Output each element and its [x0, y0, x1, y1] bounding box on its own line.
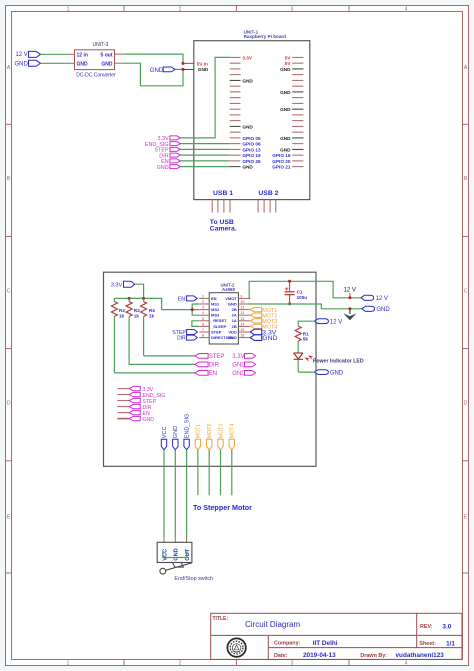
netflag END_SIG (pi) [145, 142, 180, 148]
net label 12 V [344, 288, 356, 298]
svg-text:1: 1 [67, 660, 70, 666]
svg-text:1k: 1k [119, 313, 125, 318]
svg-text:R2: R2 [119, 308, 125, 313]
pi header pins left [230, 57, 241, 166]
svg-text:DIR: DIR [177, 336, 186, 342]
svg-text:EN: EN [209, 371, 217, 377]
spare flag group: EN [117, 410, 150, 416]
svg-text:MS2: MS2 [211, 307, 220, 312]
netflag DIR (below driver) [195, 362, 220, 369]
svg-text:GPIO 16: GPIO 16 [272, 153, 291, 158]
netflag 3.3V (floating) [232, 354, 255, 361]
port GND (right) [362, 306, 391, 313]
wire MS1-MS3 tie [192, 304, 199, 315]
svg-text:14: 14 [240, 322, 244, 326]
junction rail R3 [128, 297, 131, 300]
svg-text:5: 5 [202, 317, 204, 321]
svg-text:6: 6 [202, 322, 204, 326]
spare flag group: STEP [117, 398, 156, 404]
vertical netflag MOT3 [218, 424, 225, 496]
netflag EN (pi) [161, 159, 180, 165]
netflag GND (pi) [157, 165, 180, 171]
wire 3.3V rail [114, 298, 199, 309]
wire R4 to STEP flag [144, 355, 195, 357]
vertical netflag MOT4 [229, 424, 236, 496]
svg-text:1A: 1A [232, 318, 237, 323]
svg-text:C: C [7, 289, 11, 295]
svg-text:12 V: 12 V [15, 52, 27, 58]
svg-text:GND: GND [174, 548, 180, 560]
svg-text:2019-04-13: 2019-04-13 [303, 652, 336, 659]
spare flag group: GND [117, 416, 154, 422]
svg-text:5V in: 5V in [197, 61, 208, 66]
svg-text:GPIO 26: GPIO 26 [242, 159, 261, 164]
netflag 3.3V (driver) [111, 281, 135, 289]
svg-text:DIR: DIR [209, 363, 220, 369]
svg-text:3.0: 3.0 [442, 623, 451, 630]
svg-text:GND: GND [376, 307, 390, 313]
svg-text:_RESET: _RESET [210, 318, 227, 323]
driver module enclosure box [104, 272, 317, 466]
spare flag group: 3.3V [117, 386, 153, 392]
svg-text:10: 10 [240, 300, 244, 304]
netflag EN (below driver) [195, 371, 217, 378]
port GND (input) [14, 60, 40, 67]
svg-text:STEP: STEP [209, 354, 225, 360]
svg-text:GND: GND [228, 301, 237, 306]
svg-text:GND: GND [101, 62, 113, 68]
wire RESET-SLEEP tie [192, 321, 199, 327]
svg-text:3.3V: 3.3V [232, 354, 244, 360]
svg-text:GND: GND [173, 426, 179, 438]
svg-text:GND: GND [198, 67, 209, 72]
svg-text:R3: R3 [134, 308, 140, 313]
svg-text:D: D [464, 401, 468, 407]
svg-text:2B: 2B [232, 307, 237, 312]
svg-text:MOT4: MOT4 [230, 424, 236, 439]
svg-text:A4988: A4988 [222, 287, 235, 292]
netflag MOT3 [250, 319, 277, 326]
svg-text:5 out: 5 out [101, 52, 113, 58]
svg-text:GPIO 06: GPIO 06 [242, 142, 261, 147]
wire R2 to EN flag [114, 372, 194, 374]
netflag GND (a4988) [250, 335, 277, 342]
svg-text:3: 3 [291, 6, 294, 12]
junction 5V in [182, 62, 185, 65]
svg-text:12 V: 12 V [330, 320, 342, 326]
svg-text:12 V: 12 V [344, 288, 356, 294]
svg-text:GND: GND [14, 61, 28, 67]
svg-text:1B: 1B [232, 324, 237, 329]
vertical netflag MOT2 [207, 424, 214, 496]
svg-text:MOT3: MOT3 [218, 424, 224, 439]
junction GND in [182, 68, 185, 71]
svg-text:2: 2 [179, 660, 182, 666]
svg-text:Sheet:: Sheet: [419, 641, 436, 647]
GND flag near Pi [150, 67, 183, 74]
svg-text:7: 7 [202, 328, 204, 332]
svg-text:8: 8 [202, 334, 204, 338]
svg-text:2: 2 [202, 300, 204, 304]
svg-text:Date:: Date: [274, 653, 288, 659]
svg-text:4: 4 [202, 311, 204, 315]
svg-text:USB 1: USB 1 [213, 190, 233, 197]
wire GND rail [248, 304, 362, 309]
netflag GND (floating 2) [232, 371, 255, 378]
netflag MOT1 [250, 307, 277, 314]
netflag DIR (a4988) [177, 335, 198, 342]
svg-text:EN: EN [211, 296, 217, 301]
svg-text:UNIT-3: UNIT-3 [93, 42, 109, 48]
svg-text:12 in: 12 in [77, 52, 88, 58]
netflag STEP (pi) [155, 147, 181, 153]
resistor R1 [295, 326, 309, 353]
svg-text:GND: GND [280, 90, 291, 95]
svg-text:GPIO 20: GPIO 20 [272, 159, 291, 164]
svg-text:13: 13 [240, 317, 244, 321]
svg-text:GND: GND [280, 136, 291, 141]
svg-text:TITLE:: TITLE: [213, 616, 229, 622]
svg-text:GND: GND [262, 335, 277, 342]
svg-text:GPIO 21: GPIO 21 [272, 165, 291, 170]
svg-text:Drawn By:: Drawn By: [360, 653, 387, 659]
svg-text:Company:: Company: [274, 641, 301, 647]
svg-text:REV:: REV: [420, 624, 433, 630]
pi pin labels left [242, 55, 261, 169]
wire STEP to GPIO13 [180, 148, 230, 150]
dc-dc converter UNIT-3 [67, 42, 122, 79]
svg-text:GND: GND [150, 68, 164, 74]
svg-text:1: 1 [67, 6, 70, 12]
svg-text:R4: R4 [149, 308, 155, 313]
svg-text:5V: 5V [285, 61, 292, 66]
netflag DIR (pi) [159, 153, 180, 159]
svg-text:Power Indicator LED: Power Indicator LED [313, 358, 364, 364]
svg-text:GND: GND [330, 371, 344, 377]
wire EN to GPIO26 [180, 160, 230, 162]
svg-text:2A: 2A [232, 313, 237, 318]
junction 12V [348, 296, 351, 299]
wire 12V to UNIT-3 [41, 53, 68, 55]
a4988 left pins [199, 298, 209, 337]
svg-text:IIT Delhi: IIT Delhi [313, 640, 338, 647]
svg-text:VCC: VCC [162, 426, 168, 438]
logo IIT Delhi [227, 638, 245, 656]
svg-text:5V: 5V [285, 55, 292, 60]
svg-text:MS3: MS3 [211, 313, 220, 318]
pi pin labels right [272, 55, 291, 169]
svg-text:VDD: VDD [228, 329, 237, 334]
svg-text:GND: GND [242, 165, 253, 170]
svg-text:GND: GND [280, 107, 291, 112]
svg-text:GND: GND [228, 335, 237, 340]
vertical netflag GND [173, 426, 180, 538]
port 12 V (led branch) [315, 319, 343, 326]
svg-text:Camera.: Camera. [210, 226, 237, 233]
svg-text:GND: GND [280, 67, 291, 72]
svg-text:Circuit Diagram: Circuit Diagram [245, 620, 300, 629]
port GND (led branch) [315, 370, 344, 377]
svg-text:GPIO 05: GPIO 05 [242, 136, 261, 141]
junction MS2 [191, 308, 194, 311]
svg-text:3.3V: 3.3V [111, 283, 123, 289]
netflag MOT4 [250, 324, 277, 331]
netflag 3.3V (pi) [158, 136, 181, 142]
svg-text:_SLEEP: _SLEEP [210, 324, 227, 329]
svg-text:GND: GND [280, 147, 291, 152]
resistor R3 [126, 298, 140, 364]
netflag MOT2 [250, 313, 277, 320]
wire VMOT to 12V [248, 281, 361, 298]
svg-text:USB 2: USB 2 [258, 190, 278, 197]
svg-text:GPIO 13: GPIO 13 [242, 147, 261, 152]
svg-text:12 V: 12 V [376, 296, 388, 302]
svg-text:1k: 1k [134, 313, 140, 318]
ground symbol [343, 309, 356, 321]
wire R3 to DIR flag [129, 363, 195, 365]
svg-text:16: 16 [240, 334, 244, 338]
spare flag group: END_SIG [117, 392, 165, 398]
svg-text:5k: 5k [303, 337, 309, 342]
wire DC-DC GND loop [122, 63, 183, 86]
svg-text:vudathaneni123: vudathaneni123 [396, 652, 445, 659]
resistor R4 [141, 298, 156, 356]
junction GND [348, 307, 351, 310]
wire GND to UNIT-3 [41, 62, 67, 64]
netflag STEP (below driver) [195, 354, 225, 361]
netflag EN (a4988) [178, 296, 197, 303]
netflag STEP (a4988) [172, 330, 197, 337]
svg-text:3.3V: 3.3V [242, 55, 253, 60]
svg-text:1/1: 1/1 [446, 640, 455, 647]
pin GND stub [184, 68, 196, 70]
wire GND flag to pi GND [180, 166, 230, 168]
capacitor C1 [285, 281, 308, 304]
raspberry pi UNIT-1 [194, 30, 310, 200]
usb pins [212, 200, 276, 213]
led D1 [294, 353, 314, 372]
svg-text:3: 3 [291, 660, 294, 666]
a4988 pin names [210, 296, 233, 340]
svg-text:DC-DC Converter: DC-DC Converter [76, 73, 116, 79]
resistor R2 [111, 298, 125, 373]
vertical netflag END_SIG [184, 414, 191, 538]
wire 3.3V to rail [135, 284, 144, 298]
svg-text:OUT: OUT [185, 548, 191, 560]
svg-text:15: 15 [240, 328, 244, 332]
svg-text:MOT1: MOT1 [196, 424, 202, 439]
spare flag group: DIR [117, 404, 151, 410]
pin 5V in stub [184, 62, 196, 64]
svg-text:GND: GND [157, 165, 169, 171]
port 12 V (right) [361, 295, 388, 302]
wire 3.3V flag to pi 3.3V pin [180, 57, 230, 137]
svg-text:D: D [7, 401, 11, 407]
a4988 pin numbers [202, 294, 244, 337]
svg-text:C: C [464, 289, 468, 295]
svg-text:GND: GND [242, 78, 253, 83]
vertical netflag MOT1 [195, 424, 202, 496]
wire 12V to R1 [298, 321, 314, 326]
wire LED to GND [298, 371, 314, 373]
svg-text:12: 12 [240, 311, 244, 315]
netflag GND (floating 1) [232, 362, 255, 369]
svg-text:EN: EN [178, 297, 185, 303]
wire END_SIG to GPIO06 [180, 143, 230, 145]
end stop switch SW1 [157, 538, 192, 574]
svg-text:MS1: MS1 [211, 301, 220, 306]
stepper driver UNIT-2 A4988 [209, 282, 238, 344]
junction rail R4 [142, 297, 145, 300]
svg-text:100u: 100u [297, 295, 308, 300]
a4988 right pins [238, 298, 250, 337]
svg-text:GND: GND [77, 62, 89, 68]
svg-text:GND: GND [143, 417, 155, 423]
netflag 3.3V (vdd) [250, 329, 276, 336]
svg-text:9: 9 [240, 294, 242, 298]
pi header pins right [292, 57, 303, 166]
vertical netflag VCC [161, 426, 168, 537]
svg-text:MOT2: MOT2 [207, 424, 213, 439]
svg-text:To Stepper Motor: To Stepper Motor [193, 503, 252, 512]
svg-text:1: 1 [202, 294, 204, 298]
svg-text:STEP: STEP [211, 329, 222, 334]
svg-text:END_SIG: END_SIG [184, 414, 190, 439]
svg-text:1k: 1k [149, 313, 155, 318]
svg-text:GPIO 19: GPIO 19 [242, 153, 261, 158]
port 12V [15, 51, 40, 58]
svg-text:VMOT: VMOT [225, 296, 237, 301]
svg-text:4: 4 [405, 660, 408, 666]
svg-text:GND: GND [242, 124, 253, 129]
wire 5out to 5Vin [122, 54, 183, 63]
svg-text:4: 4 [405, 6, 408, 12]
title block [211, 613, 462, 659]
svg-text:3: 3 [202, 306, 204, 310]
wire DIR to GPIO19 [180, 154, 230, 156]
svg-text:2: 2 [179, 6, 182, 12]
svg-text:11: 11 [240, 306, 244, 310]
svg-text:Raspberry Pi board: Raspberry Pi board [244, 34, 287, 39]
svg-text:End/Stop switch: End/Stop switch [174, 576, 213, 582]
junction C1 top [288, 280, 291, 283]
junction C1 bottom [288, 302, 291, 305]
